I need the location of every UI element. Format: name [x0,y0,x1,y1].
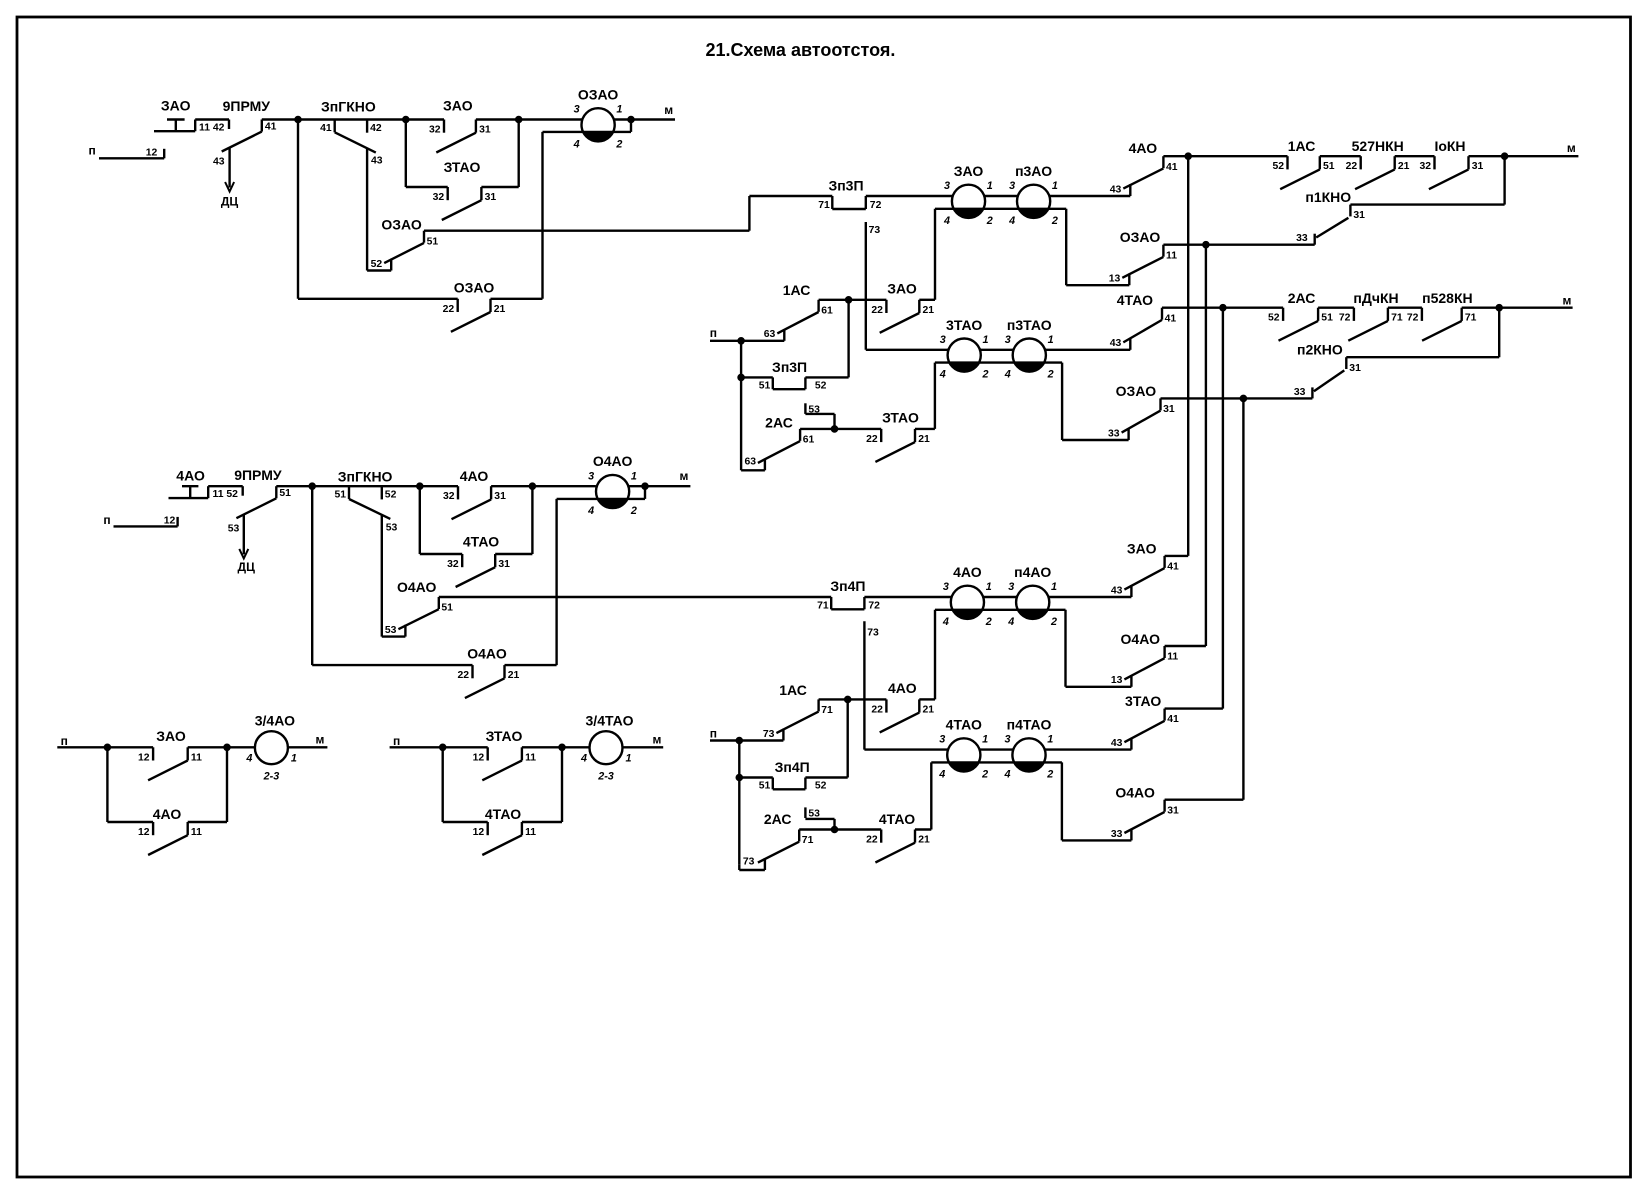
svg-text:21: 21 [1398,161,1410,172]
svg-text:1: 1 [1052,180,1058,192]
svg-text:12: 12 [473,827,485,838]
svg-text:21: 21 [923,305,935,316]
svg-text:4: 4 [1003,768,1010,780]
svg-text:п: п [710,726,717,740]
svg-text:4: 4 [939,369,946,381]
svg-text:4ТАО: 4ТАО [463,534,499,550]
svg-text:21: 21 [918,434,930,445]
svg-text:ЗпГКНО: ЗпГКНО [338,469,393,485]
svg-text:71: 71 [802,835,814,846]
svg-text:4: 4 [1008,215,1015,227]
svg-text:4: 4 [1007,616,1014,628]
svg-text:73: 73 [869,225,881,236]
svg-text:1: 1 [982,734,988,746]
svg-text:33: 33 [1111,829,1123,840]
svg-text:ЗАО: ЗАО [161,98,191,114]
svg-text:2: 2 [986,215,993,227]
svg-text:31: 31 [1163,404,1175,415]
svg-text:4АО: 4АО [460,468,489,484]
svg-text:22: 22 [457,670,469,681]
svg-text:51: 51 [279,488,291,499]
svg-text:ОЗАО: ОЗАО [381,217,422,233]
svg-text:72: 72 [870,200,882,211]
svg-text:4ТАО: 4ТАО [485,806,521,822]
svg-text:пДчКН: пДчКН [1353,290,1398,306]
svg-text:ЗАО: ЗАО [954,163,984,179]
svg-text:2: 2 [1051,215,1058,227]
svg-text:52: 52 [1272,161,1284,172]
svg-text:32: 32 [443,491,455,502]
svg-text:О4АО: О4АО [467,646,507,662]
svg-text:73: 73 [867,627,879,638]
svg-text:9ПРМУ: 9ПРМУ [223,98,271,114]
svg-text:п3АО: п3АО [1015,163,1052,179]
svg-text:12: 12 [138,827,150,838]
svg-text:52: 52 [371,259,383,270]
svg-text:п4ТАО: п4ТАО [1007,717,1052,733]
svg-text:4: 4 [938,768,945,780]
svg-text:52: 52 [385,490,397,501]
svg-text:52: 52 [1268,313,1280,324]
svg-text:2-3: 2-3 [263,771,280,783]
svg-text:21.Схема автоотстоя.: 21.Схема автоотстоя. [706,40,896,60]
svg-text:2: 2 [1046,768,1053,780]
svg-text:33: 33 [1108,428,1120,439]
svg-text:43: 43 [371,156,383,167]
svg-text:м: м [679,469,688,483]
svg-text:ЗАО: ЗАО [887,281,917,297]
svg-text:41: 41 [265,121,277,132]
svg-text:61: 61 [821,305,833,316]
svg-text:2АС: 2АС [764,811,792,827]
svg-text:31: 31 [1353,210,1365,221]
svg-text:3/4ТАО: 3/4ТАО [586,712,634,728]
svg-text:32: 32 [429,125,441,136]
svg-text:3: 3 [943,581,949,593]
svg-text:73: 73 [763,729,775,740]
svg-text:51: 51 [441,603,453,614]
svg-text:3ТАО: 3ТАО [1125,693,1161,709]
svg-text:31: 31 [479,125,491,136]
svg-text:51: 51 [427,236,439,247]
svg-text:22: 22 [866,434,878,445]
svg-text:1: 1 [986,581,992,593]
svg-text:4АО: 4АО [153,806,182,822]
svg-text:53: 53 [228,523,240,534]
svg-text:3: 3 [1008,581,1014,593]
svg-text:4ТАО: 4ТАО [1117,292,1153,308]
svg-text:41: 41 [320,123,332,134]
svg-text:1АС: 1АС [783,282,811,298]
svg-text:2АС: 2АС [765,414,793,430]
svg-text:О4АО: О4АО [1115,784,1155,800]
svg-text:31: 31 [1167,805,1179,816]
svg-text:51: 51 [759,781,771,792]
svg-text:72: 72 [868,601,880,612]
svg-text:4: 4 [943,215,950,227]
svg-text:2АС: 2АС [1288,290,1316,306]
svg-text:21: 21 [918,835,930,846]
svg-text:Зп4П: Зп4П [775,759,810,775]
svg-text:ЗТАО: ЗТАО [444,159,481,175]
svg-text:4АО: 4АО [176,468,205,484]
svg-text:31: 31 [498,559,510,570]
svg-text:ЗТАО: ЗТАО [882,410,919,426]
svg-text:22: 22 [871,704,883,715]
svg-text:3: 3 [1005,334,1011,346]
svg-text:12: 12 [138,752,150,763]
svg-text:33: 33 [1296,233,1308,244]
svg-text:22: 22 [443,304,455,315]
svg-text:31: 31 [494,491,506,502]
svg-text:51: 51 [334,490,346,501]
svg-text:53: 53 [385,625,397,636]
svg-text:ДЦ: ДЦ [238,560,256,574]
svg-text:3/4АО: 3/4АО [255,712,295,728]
svg-text:9ПРМУ: 9ПРМУ [234,467,282,483]
svg-text:63: 63 [764,329,776,340]
svg-text:3: 3 [588,470,594,482]
svg-text:м: м [1567,141,1576,155]
svg-text:41: 41 [1167,714,1179,725]
svg-text:11: 11 [191,752,202,763]
svg-text:О4АО: О4АО [593,453,633,469]
svg-text:2: 2 [1050,616,1057,628]
svg-text:2: 2 [981,369,988,381]
svg-text:3: 3 [940,334,946,346]
svg-text:ЗпГКНО: ЗпГКНО [321,98,376,114]
svg-text:32: 32 [447,559,459,570]
svg-text:2-3: 2-3 [597,771,614,783]
svg-text:2: 2 [630,505,637,517]
svg-text:2: 2 [985,616,992,628]
svg-text:41: 41 [1166,162,1178,173]
svg-text:51: 51 [759,380,771,391]
svg-text:43: 43 [1110,184,1122,195]
svg-text:1: 1 [1047,734,1053,746]
svg-text:ЗАО: ЗАО [156,728,186,744]
svg-text:ОЗАО: ОЗАО [1116,383,1157,399]
svg-text:11 52: 11 52 [213,489,239,500]
svg-text:4: 4 [942,616,949,628]
svg-text:72: 72 [1407,313,1419,324]
svg-text:п1КНО: п1КНО [1305,189,1351,205]
svg-text:13: 13 [1111,675,1123,686]
svg-text:п3ТАО: п3ТАО [1007,317,1052,333]
svg-text:п: п [710,326,717,340]
svg-text:ОЗАО: ОЗАО [454,280,495,296]
svg-text:43: 43 [1111,738,1123,749]
svg-text:1: 1 [291,753,297,765]
svg-text:527НКН: 527НКН [1352,138,1404,154]
svg-text:Зп4П: Зп4П [830,578,865,594]
svg-text:32: 32 [433,192,445,203]
svg-text:22: 22 [1346,161,1358,172]
svg-text:21: 21 [923,704,935,715]
svg-text:4: 4 [1004,369,1011,381]
svg-text:11: 11 [1166,250,1177,261]
svg-text:4: 4 [587,505,594,517]
svg-text:1АС: 1АС [1288,138,1316,154]
svg-text:м: м [1562,293,1571,307]
svg-text:31: 31 [1349,363,1361,374]
svg-text:43: 43 [1110,338,1122,349]
svg-text:ДЦ: ДЦ [221,195,239,209]
svg-text:2: 2 [1047,369,1054,381]
svg-text:ЗАО: ЗАО [1127,540,1157,556]
svg-text:п4АО: п4АО [1014,564,1051,580]
svg-text:IоКН: IоКН [1434,138,1465,154]
svg-text:3: 3 [574,104,580,116]
svg-text:1: 1 [1048,334,1054,346]
svg-text:73: 73 [743,856,755,867]
svg-text:ЗАО: ЗАО [443,97,473,113]
svg-text:О4АО: О4АО [1121,631,1161,647]
svg-text:1: 1 [616,104,622,116]
svg-text:4ТАО: 4ТАО [946,717,982,733]
svg-text:4ТАО: 4ТАО [879,811,915,827]
svg-text:63: 63 [745,457,757,468]
svg-text:м: м [664,103,673,117]
svg-text:11: 11 [525,827,536,838]
svg-text:41: 41 [1165,313,1177,324]
svg-text:4АО: 4АО [888,680,917,696]
svg-text:72: 72 [1339,313,1351,324]
svg-text:11: 11 [1167,652,1178,663]
svg-text:1: 1 [1051,581,1057,593]
svg-text:13: 13 [1109,274,1121,285]
svg-text:п2КНО: п2КНО [1297,342,1343,358]
svg-text:21: 21 [508,670,520,681]
svg-text:71: 71 [818,200,830,211]
svg-text:21: 21 [494,304,506,315]
svg-text:52: 52 [815,781,827,792]
svg-text:11: 11 [191,827,202,838]
svg-text:22: 22 [871,305,883,316]
svg-text:1: 1 [631,470,637,482]
svg-text:12: 12 [473,752,485,763]
svg-text:33: 33 [1294,387,1306,398]
svg-text:1: 1 [982,334,988,346]
svg-text:71: 71 [817,601,829,612]
svg-text:1: 1 [625,753,631,765]
svg-text:41: 41 [1167,562,1179,573]
svg-text:п: п [88,143,95,157]
svg-text:Зп3П: Зп3П [772,359,807,375]
svg-text:12: 12 [164,515,176,526]
svg-text:ЗТАО: ЗТАО [486,728,523,744]
svg-text:4АО: 4АО [1129,140,1158,156]
svg-text:52: 52 [815,380,827,391]
svg-text:12: 12 [146,147,158,158]
svg-text:61: 61 [803,435,815,446]
svg-text:42: 42 [370,123,382,134]
svg-text:43: 43 [1111,585,1123,596]
svg-text:2: 2 [615,138,622,150]
svg-text:71: 71 [1465,313,1477,324]
svg-text:п528КН: п528КН [1422,290,1472,306]
svg-text:11: 11 [525,752,536,763]
svg-text:3: 3 [1009,180,1015,192]
svg-text:32: 32 [1419,161,1431,172]
svg-text:3: 3 [939,734,945,746]
svg-text:п: п [103,513,110,527]
svg-text:4: 4 [245,753,252,765]
svg-text:ОЗАО: ОЗАО [1120,229,1161,245]
svg-text:4: 4 [580,753,587,765]
svg-text:31: 31 [485,192,497,203]
svg-text:1АС: 1АС [779,682,807,698]
svg-text:11 42: 11 42 [199,122,225,133]
svg-text:3: 3 [1004,734,1010,746]
svg-text:1: 1 [987,180,993,192]
svg-text:3ТАО: 3ТАО [946,317,982,333]
svg-text:71: 71 [821,705,833,716]
svg-text:3: 3 [944,180,950,192]
svg-text:Зп3П: Зп3П [828,178,863,194]
svg-text:22: 22 [866,835,878,846]
svg-text:71: 71 [1391,313,1403,324]
svg-text:О4АО: О4АО [397,579,437,595]
svg-text:м: м [652,733,661,747]
svg-text:43: 43 [213,157,225,168]
svg-text:53: 53 [386,522,398,533]
svg-text:4АО: 4АО [953,564,982,580]
svg-text:51: 51 [1321,313,1333,324]
svg-text:ОЗАО: ОЗАО [578,87,619,103]
svg-text:31: 31 [1472,161,1484,172]
svg-text:2: 2 [981,768,988,780]
svg-text:м: м [316,733,325,747]
svg-text:4: 4 [573,138,580,150]
svg-text:51: 51 [1323,161,1335,172]
